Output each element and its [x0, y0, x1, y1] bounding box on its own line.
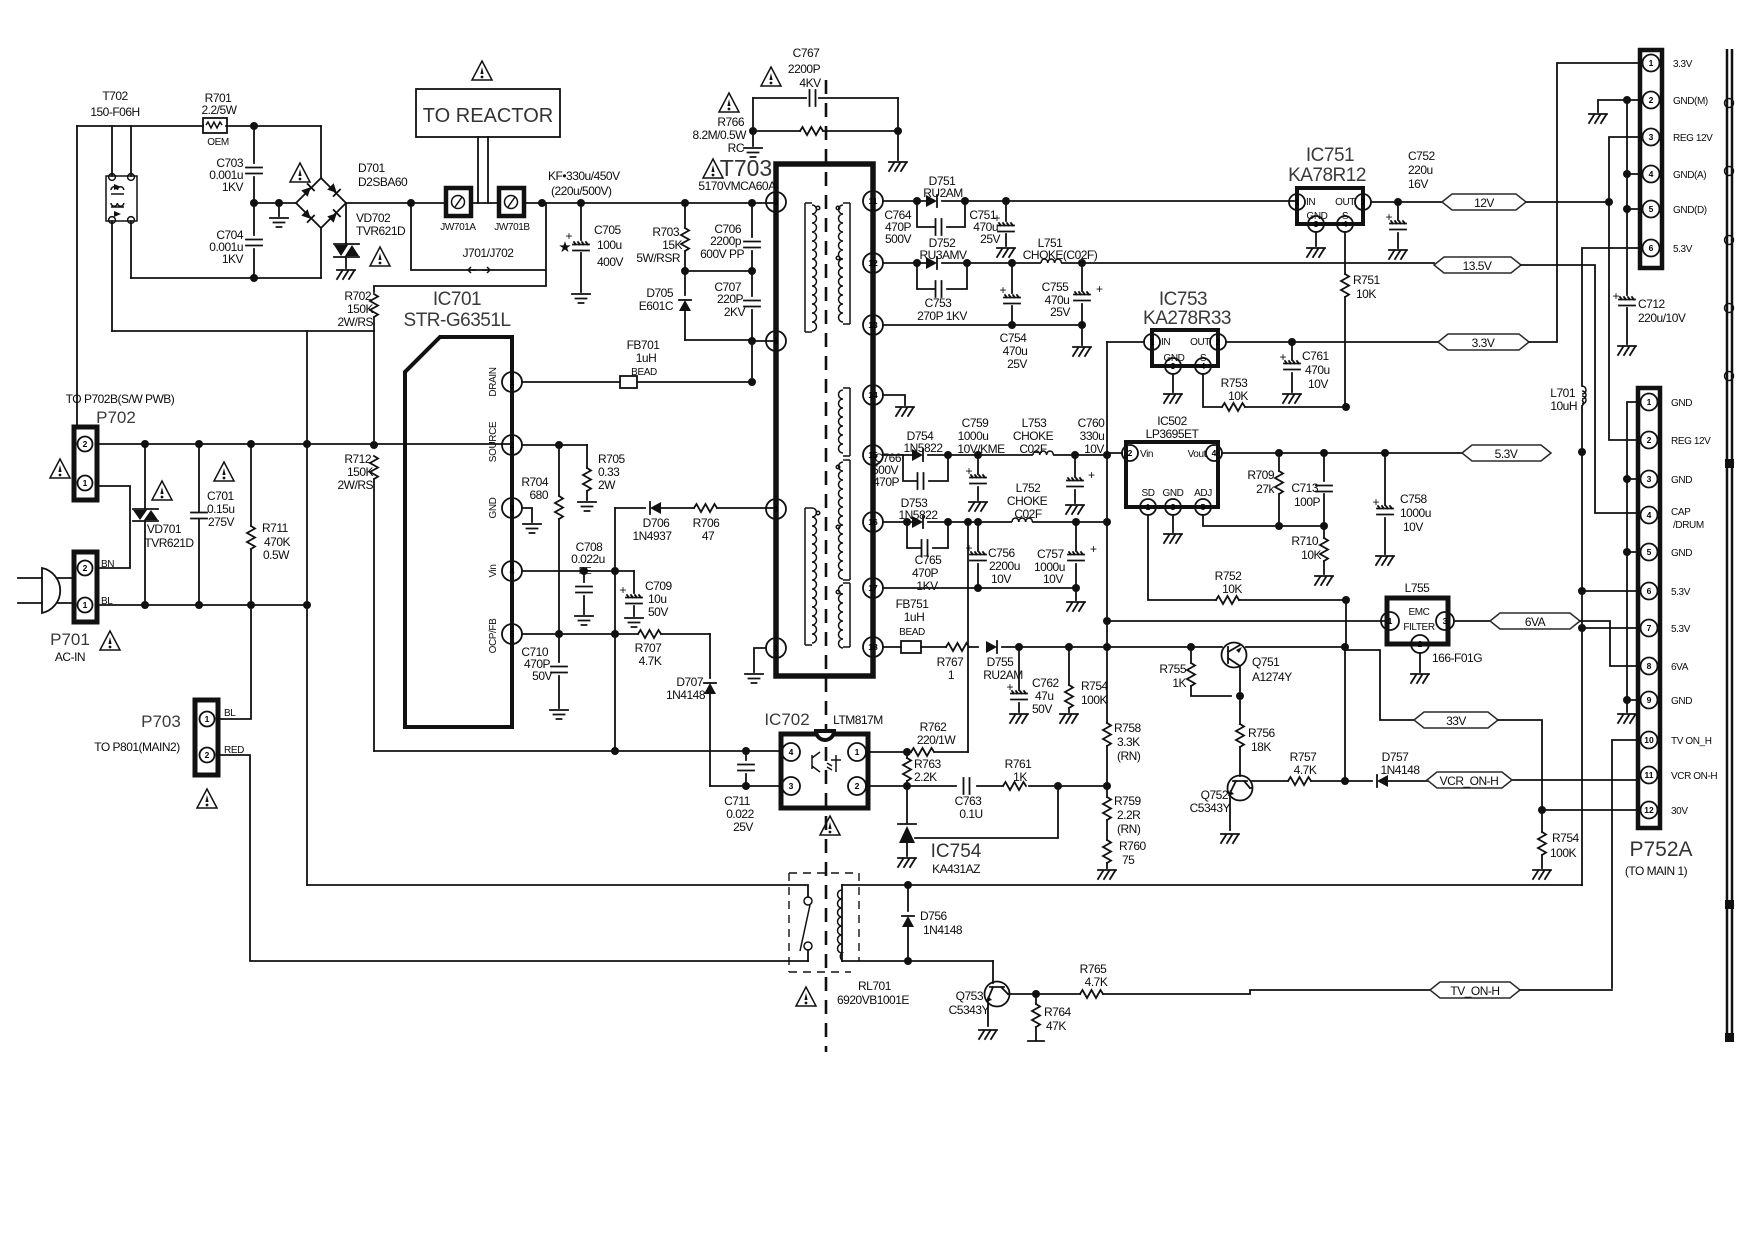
svg-text:R763: R763	[914, 757, 942, 771]
svg-text:2W: 2W	[598, 478, 616, 492]
resistor R765	[1036, 993, 1080, 995]
svg-text:L753: L753	[1022, 416, 1048, 430]
svg-text:1K: 1K	[1013, 770, 1027, 784]
warning near P703	[197, 789, 217, 808]
svg-text:1N4937: 1N4937	[632, 529, 672, 543]
inductor L701	[1582, 386, 1586, 406]
wire snubber bottom to pin6	[685, 340, 776, 341]
resistor R704	[558, 445, 560, 496]
svg-text:FB701: FB701	[627, 338, 661, 352]
resistor R760	[1103, 840, 1111, 863]
P752A pin 4	[1641, 507, 1658, 524]
svg-text:1: 1	[774, 643, 779, 653]
svg-text:10V: 10V	[1308, 377, 1328, 391]
resistor R754	[1068, 647, 1070, 685]
svg-text:100K: 100K	[1550, 846, 1577, 860]
svg-text:5.3V: 5.3V	[1671, 624, 1691, 635]
T703 pin 16	[863, 512, 883, 532]
capacitor C764	[917, 201, 965, 227]
svg-text:1: 1	[855, 747, 860, 757]
svg-text:BL: BL	[101, 596, 113, 607]
svg-text:6: 6	[1647, 586, 1652, 596]
capacitor C766	[903, 455, 948, 481]
T703 pin 13	[863, 315, 883, 335]
svg-text:166-F01G: 166-F01G	[1432, 651, 1482, 665]
svg-text:2: 2	[1647, 435, 1652, 445]
wire gnd bus top	[1627, 100, 1642, 295]
svg-text:P752A: P752A	[1629, 838, 1692, 861]
flag TV_ON-H	[1430, 982, 1520, 998]
capacitor C706	[751, 203, 753, 271]
capacitor C711	[745, 751, 747, 786]
svg-text:5.3V: 5.3V	[1671, 587, 1691, 598]
ferrite bead FB701	[620, 376, 637, 388]
svg-text:9: 9	[774, 197, 779, 207]
svg-text:IN: IN	[1306, 197, 1315, 208]
ground IC751 pin3	[1315, 232, 1317, 246]
svg-text:P701: P701	[50, 630, 90, 649]
svg-text:16V: 16V	[1408, 177, 1428, 191]
svg-text:2200u: 2200u	[989, 559, 1020, 573]
svg-text:11: 11	[869, 196, 878, 206]
svg-text:150K: 150K	[347, 465, 374, 479]
svg-text:IC502: IC502	[1157, 414, 1187, 428]
wire C767 left leg	[752, 98, 754, 146]
svg-text:IC754: IC754	[931, 841, 982, 862]
diode D751	[926, 195, 937, 207]
svg-text:C767: C767	[793, 46, 821, 60]
diode D706	[650, 502, 661, 514]
IC701 pin5	[502, 624, 522, 644]
svg-text:18K: 18K	[1251, 740, 1271, 754]
switching reg IC502	[1126, 442, 1218, 507]
svg-text:0.022: 0.022	[726, 807, 754, 821]
svg-text:C712: C712	[1638, 297, 1666, 311]
svg-text:Vin: Vin	[1140, 449, 1153, 460]
wire B+ rail	[346, 202, 776, 204]
svg-text:R754: R754	[1081, 679, 1109, 693]
wire Q751 emitter col	[1344, 647, 1346, 781]
svg-text:A1274Y: A1274Y	[1252, 670, 1292, 684]
svg-text:R757: R757	[1290, 750, 1318, 764]
CN1 pin 5	[1643, 201, 1660, 218]
diode D755	[986, 641, 997, 653]
svg-text:4.7K: 4.7K	[639, 654, 662, 668]
svg-text:100K: 100K	[1081, 693, 1108, 707]
svg-text:2: 2	[83, 563, 88, 573]
resistor R751	[1344, 232, 1346, 274]
wire IC502 vin	[1107, 452, 1122, 454]
wire T703 pin1 gnd	[754, 648, 766, 672]
svg-text:10V: 10V	[1403, 520, 1423, 534]
svg-text:1uH: 1uH	[904, 610, 925, 624]
svg-text:CHOKE: CHOKE	[1013, 429, 1054, 443]
relay contact top	[804, 897, 812, 905]
capacitor C703	[253, 126, 255, 203]
wire TL431 ref	[915, 786, 1058, 838]
warning near VD702	[370, 247, 390, 266]
svg-text:1N5822: 1N5822	[898, 508, 938, 522]
svg-text:C765: C765	[915, 553, 943, 567]
svg-text:2: 2	[1216, 337, 1221, 347]
resistor R703	[684, 203, 686, 228]
svg-text:47K: 47K	[1046, 1019, 1066, 1033]
svg-text:7: 7	[1647, 623, 1652, 633]
wire 30V line	[1542, 809, 1640, 811]
wire gnd(M)	[1598, 100, 1642, 112]
svg-text:1: 1	[83, 600, 88, 610]
svg-text:Q752: Q752	[1201, 788, 1229, 802]
svg-text:P702: P702	[96, 408, 136, 427]
svg-text:SD: SD	[1141, 488, 1154, 499]
svg-text:GND: GND	[1671, 475, 1692, 486]
svg-text:2.2R: 2.2R	[1117, 808, 1141, 822]
svg-text:PE: PE	[579, 566, 592, 577]
CN1 pin 2	[1643, 92, 1660, 109]
bridge rectifier D701	[296, 178, 346, 228]
IC701 pin2	[502, 435, 522, 455]
svg-text:1: 1	[1295, 197, 1300, 207]
wire pin10 TV riser	[1612, 740, 1640, 988]
wire pin3 gnd stub	[522, 508, 532, 522]
svg-text:10V: 10V	[1084, 442, 1104, 456]
svg-text:1: 1	[1150, 337, 1155, 347]
isolation dashed line	[825, 80, 828, 1052]
CN1 pin 4	[1643, 166, 1660, 183]
svg-text:0.33: 0.33	[598, 465, 620, 479]
svg-text:2W/RS: 2W/RS	[337, 315, 373, 329]
wire R762 to 3.45V rail	[967, 522, 969, 752]
svg-text:TVR621D: TVR621D	[144, 536, 194, 550]
TO REACTOR box	[416, 89, 560, 137]
warning above reactor	[472, 61, 492, 80]
svg-text:15K: 15K	[662, 238, 682, 252]
node AC mid	[250, 122, 258, 130]
resistor R755	[1190, 647, 1192, 663]
svg-text:18: 18	[868, 642, 878, 652]
svg-text:5: 5	[1647, 547, 1652, 557]
svg-text:C757: C757	[1037, 547, 1065, 561]
svg-text:OEM: OEM	[207, 137, 229, 148]
T703 pin 18	[863, 637, 883, 657]
ground pin17	[1075, 588, 1077, 600]
T703 winding sec bot	[839, 585, 844, 648]
warning below IC702	[820, 816, 840, 835]
svg-text:D705: D705	[646, 286, 674, 300]
svg-text:2: 2	[1649, 95, 1654, 105]
svg-text:12V: 12V	[1474, 196, 1494, 210]
svg-text:2KV: 2KV	[724, 305, 746, 319]
capacitor C707	[751, 271, 753, 341]
svg-text:0.5W: 0.5W	[263, 548, 290, 562]
svg-text:470K: 470K	[264, 535, 291, 549]
T703 winding aux left	[812, 508, 817, 643]
svg-text:150-F06H: 150-F06H	[90, 105, 139, 119]
svg-text:1: 1	[205, 714, 210, 724]
wire snubber mid	[685, 270, 752, 272]
svg-text:/DRUM: /DRUM	[1673, 520, 1704, 531]
wire P703 pin1	[218, 605, 251, 719]
inductor L751	[1041, 259, 1061, 263]
svg-text:6920VB1001E: 6920VB1001E	[837, 993, 909, 1007]
svg-text:R764: R764	[1044, 1005, 1072, 1019]
wire pin14 gnd	[883, 395, 905, 405]
svg-text:FB751: FB751	[896, 597, 930, 611]
capacitor C765	[907, 522, 948, 548]
svg-text:R711: R711	[262, 521, 289, 535]
svg-text:KF•330u/450V: KF•330u/450V	[548, 169, 620, 183]
svg-text:R751: R751	[1353, 273, 1381, 287]
svg-text:1N4148: 1N4148	[923, 923, 963, 937]
svg-text:10V: 10V	[991, 572, 1011, 586]
svg-text:10K: 10K	[1356, 287, 1376, 301]
svg-text:RL701: RL701	[858, 979, 892, 993]
svg-text:27k: 27k	[1256, 482, 1275, 496]
P752A pin 5	[1641, 544, 1658, 561]
svg-text:3: 3	[1649, 132, 1654, 142]
svg-text:2: 2	[205, 750, 210, 760]
svg-text:275V: 275V	[208, 515, 235, 529]
svg-text:R707: R707	[635, 641, 663, 655]
T703 pin 9	[766, 192, 786, 212]
divider column R758	[1106, 342, 1108, 723]
wire AC to relay contact	[307, 885, 808, 897]
svg-text:25V: 25V	[980, 232, 1000, 246]
diode D754	[912, 449, 923, 461]
svg-text:IC753: IC753	[1159, 289, 1207, 310]
svg-text:C5343Y: C5343Y	[949, 1003, 990, 1017]
svg-text:+: +	[1090, 542, 1097, 556]
T703 pin 12	[863, 253, 883, 273]
svg-text:10K: 10K	[1222, 582, 1242, 596]
connector P752A box	[1638, 388, 1660, 828]
svg-text:R758: R758	[1114, 721, 1142, 735]
SECTION-A primary	[18, 61, 808, 961]
svg-text:R759: R759	[1114, 794, 1142, 808]
wire T702 stubs	[112, 126, 131, 331]
svg-text:1KV: 1KV	[222, 252, 244, 266]
wire opto pin2 line	[866, 785, 1107, 787]
svg-text:4: 4	[510, 566, 515, 576]
capacitor C710	[558, 634, 560, 708]
svg-text:VCR_ON-H: VCR_ON-H	[1440, 774, 1499, 788]
svg-text:150K: 150K	[347, 302, 374, 316]
flag 12V	[1442, 194, 1526, 210]
svg-text:P703: P703	[141, 712, 181, 731]
svg-text:270P 1KV: 270P 1KV	[917, 309, 967, 323]
svg-text:REG 12V: REG 12V	[1671, 436, 1711, 447]
svg-text:3.3K: 3.3K	[1117, 735, 1140, 749]
svg-text:2200p: 2200p	[710, 234, 742, 248]
svg-text:17: 17	[868, 583, 878, 593]
wire IC753 out 3.3V	[1226, 341, 1438, 343]
svg-text:1: 1	[1388, 616, 1393, 626]
svg-text:IC702: IC702	[764, 710, 809, 729]
svg-text:R706: R706	[693, 516, 721, 530]
TVS VD701	[144, 444, 146, 605]
bus bar right edge	[1727, 49, 1732, 1040]
capacitor C701	[198, 444, 200, 605]
svg-text:470u: 470u	[1003, 344, 1028, 358]
svg-text:50V: 50V	[1032, 702, 1052, 716]
svg-text:IC751: IC751	[1306, 145, 1354, 166]
flag VCR_ON-H	[1427, 772, 1512, 788]
wire TV_ON line	[1103, 990, 1430, 994]
svg-text:C759: C759	[962, 416, 990, 430]
svg-text:470P: 470P	[912, 566, 939, 580]
ground IC502 gnd	[1172, 515, 1174, 532]
svg-text:S: S	[1200, 353, 1207, 364]
wire 12V bus	[1609, 137, 1642, 440]
svg-text:13.5V: 13.5V	[1463, 259, 1492, 273]
svg-text:680: 680	[529, 488, 548, 502]
svg-text:C713: C713	[1291, 481, 1319, 495]
svg-text:470P: 470P	[873, 475, 900, 489]
svg-text:GND(D): GND(D)	[1673, 205, 1707, 216]
svg-text:L701: L701	[1550, 386, 1576, 400]
svg-text:+: +	[619, 583, 626, 597]
T703 pin 14	[863, 385, 883, 405]
regulator IC753	[1152, 330, 1218, 366]
svg-text:LTM817M: LTM817M	[833, 713, 883, 727]
svg-text:50V: 50V	[648, 605, 668, 619]
wire coil 30V line	[842, 884, 1582, 886]
svg-text:R762: R762	[920, 720, 948, 734]
svg-text:2.2/5W: 2.2/5W	[201, 103, 237, 117]
warning near C701	[214, 462, 234, 481]
svg-text:4: 4	[789, 747, 794, 757]
svg-text:R756: R756	[1248, 726, 1276, 740]
capacitor C712	[1619, 297, 1635, 306]
svg-text:D2SBA60: D2SBA60	[358, 175, 408, 189]
svg-text:4: 4	[1647, 510, 1652, 520]
wire bridge AC feed	[254, 202, 296, 204]
svg-text:R761: R761	[1005, 757, 1033, 771]
svg-text:AC-IN: AC-IN	[55, 650, 85, 664]
capacitor C762	[1018, 647, 1020, 712]
svg-text:GND: GND	[1306, 211, 1327, 222]
svg-text:4.7K: 4.7K	[1294, 763, 1317, 777]
svg-text:IC701: IC701	[433, 289, 481, 310]
svg-text:Q751: Q751	[1252, 655, 1280, 669]
diode D752	[926, 257, 937, 269]
svg-text:★: ★	[558, 239, 571, 256]
resistor R766	[753, 130, 898, 132]
svg-text:10V/KME: 10V/KME	[957, 442, 1005, 456]
svg-text:14: 14	[868, 390, 878, 400]
svg-text:4: 4	[1649, 169, 1654, 179]
T703 pin 17	[863, 578, 883, 598]
svg-text:VD701: VD701	[147, 522, 182, 536]
svg-text:+: +	[965, 541, 972, 555]
svg-text:10K: 10K	[1228, 389, 1248, 403]
svg-text:12: 12	[868, 258, 878, 268]
P752A pin 8	[1641, 658, 1658, 675]
svg-text:+: +	[965, 464, 972, 478]
svg-text:C753: C753	[925, 296, 953, 310]
svg-text:BL: BL	[224, 708, 236, 719]
svg-text:R710: R710	[1291, 534, 1319, 548]
svg-text:13: 13	[868, 320, 878, 330]
node B+ dots	[407, 199, 415, 207]
svg-text:0.1U: 0.1U	[959, 807, 982, 821]
transistor Q753	[992, 961, 994, 983]
resistor R707	[638, 630, 661, 638]
svg-text:10: 10	[1644, 735, 1654, 745]
resistor R754 100K	[1538, 832, 1546, 855]
svg-text:R765: R765	[1080, 962, 1108, 976]
svg-text:BN: BN	[101, 559, 114, 570]
wire P702 pin2 line	[97, 443, 512, 445]
svg-text:DRAIN: DRAIN	[488, 367, 499, 396]
line filter T702	[106, 176, 137, 221]
svg-text:100P: 100P	[1294, 495, 1321, 509]
wire 13.5V secondary line	[883, 262, 1434, 264]
svg-text:TV_ON-H: TV_ON-H	[1450, 984, 1499, 998]
wire 13.5V to CAP/DRUM	[1521, 265, 1638, 513]
svg-text:10K: 10K	[1301, 548, 1321, 562]
svg-text:C763: C763	[955, 794, 983, 808]
svg-text:0.022u: 0.022u	[571, 552, 605, 566]
P752A pin 11	[1641, 767, 1658, 784]
svg-text:R754: R754	[1552, 831, 1580, 845]
ground L755 pin2	[1419, 653, 1421, 672]
resistor R761	[1003, 782, 1026, 790]
svg-text:C762: C762	[1032, 676, 1060, 690]
wire 33V to 30V line	[1498, 720, 1542, 810]
svg-text:220u/10V: 220u/10V	[1638, 311, 1686, 325]
T703 pin 3	[766, 499, 786, 519]
T703 winding sec low	[839, 462, 844, 579]
svg-text:3: 3	[1647, 474, 1652, 484]
svg-text:5W/RSR: 5W/RSR	[636, 251, 681, 265]
svg-text:4: 4	[1212, 448, 1217, 458]
svg-text:TV ON_H: TV ON_H	[1671, 736, 1712, 747]
P752A pin 6	[1641, 583, 1658, 600]
wire L755 out 6VA	[1454, 620, 1490, 622]
svg-text:+: +	[1372, 495, 1379, 509]
svg-text:1KV: 1KV	[916, 579, 938, 593]
SECTION-D regulators	[1107, 63, 1640, 810]
svg-text:10u: 10u	[648, 592, 667, 606]
svg-text:R712: R712	[344, 452, 372, 466]
svg-text:3: 3	[510, 503, 515, 513]
capacitor C704	[253, 203, 255, 278]
resistor R767	[946, 643, 969, 651]
warning near VD701	[152, 481, 172, 500]
wire pin18 line	[883, 646, 1345, 648]
flag 33V	[1414, 712, 1498, 728]
svg-text:D757: D757	[1382, 750, 1410, 764]
svg-text:E601C: E601C	[639, 299, 674, 313]
inductor L753	[1033, 451, 1053, 455]
svg-text:Q753: Q753	[956, 989, 984, 1003]
svg-text:2: 2	[1361, 197, 1366, 207]
svg-text:TVR621D: TVR621D	[356, 224, 406, 238]
svg-text:GND: GND	[1162, 488, 1183, 499]
svg-text:C761: C761	[1302, 349, 1330, 363]
svg-text:D755: D755	[987, 655, 1015, 669]
svg-text:220/1W: 220/1W	[917, 733, 957, 747]
svg-text:50V: 50V	[532, 669, 552, 683]
ground pin13	[1081, 325, 1083, 345]
wire reactor leads	[478, 137, 488, 203]
svg-text:6: 6	[774, 336, 779, 346]
resistor R710	[1323, 526, 1325, 538]
svg-text:R760: R760	[1119, 839, 1147, 853]
diode D753	[912, 516, 923, 528]
capacitor C753	[917, 263, 967, 289]
